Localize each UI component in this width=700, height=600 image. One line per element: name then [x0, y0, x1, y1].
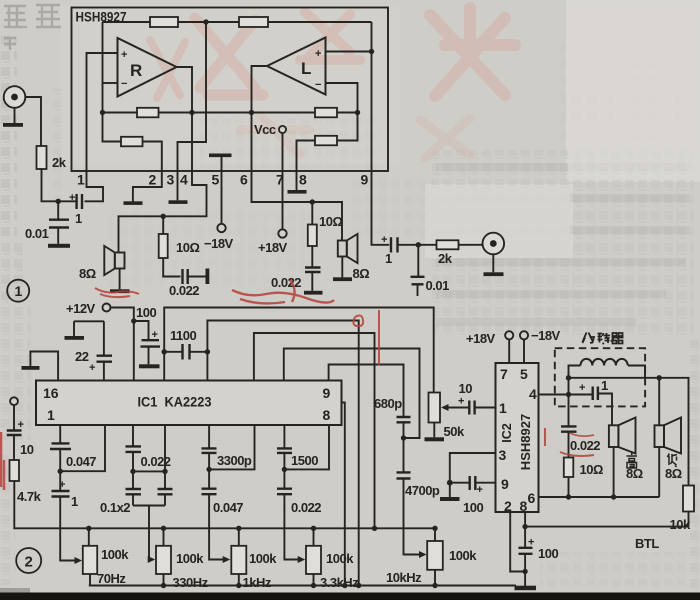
- speaker low 8ohm: [655, 378, 682, 497]
- node high speaker rail: [611, 494, 616, 499]
- wire 0.1x2 join to pot2: [133, 506, 165, 560]
- ground jack right: [484, 272, 504, 276]
- ground 22uF with stem: [65, 321, 104, 340]
- wiper arrow pot2: [148, 556, 156, 563]
- svg-text:−18V: −18V: [204, 236, 234, 251]
- wire jack to 2k left: [25, 97, 41, 146]
- node pin8 BTL: [522, 524, 527, 529]
- wire R lower feedback to pin2: [103, 113, 162, 172]
- label fenpinqi (crossover) glyphs: [583, 333, 624, 345]
- wire 2k to input node: [42, 169, 77, 201]
- svg-text:+: +: [528, 537, 534, 549]
- svg-text:+: +: [381, 234, 387, 246]
- wire Vcc pin7: [282, 133, 284, 229]
- svg-text:+: +: [152, 329, 158, 341]
- svg-text:100: 100: [136, 305, 156, 320]
- wire bus E to 680p: [329, 365, 404, 417]
- ground IC2 output: [515, 586, 537, 591]
- IC block HSH8927 outline: [72, 8, 389, 172]
- svg-text:3.3kHz: 3.3kHz: [320, 575, 359, 590]
- resistor R gain set: [121, 137, 143, 147]
- ground jack left: [3, 123, 23, 127]
- svg-text:−18V: −18V: [531, 328, 561, 343]
- svg-text:7: 7: [276, 172, 284, 188]
- wire sect4 return pin: [284, 425, 329, 469]
- node pin3/9 ground junction: [447, 480, 453, 486]
- capacitor 0.047 second: [202, 469, 228, 559]
- svg-text:0.022: 0.022: [271, 275, 301, 290]
- ground speaker R: [110, 289, 130, 293]
- svg-text:IC2: IC2: [500, 423, 514, 443]
- capacitor 100 pin9: [450, 476, 496, 490]
- wire bus C to top rail: [254, 333, 375, 528]
- wire -18V pin5: [523, 339, 525, 363]
- capacitor 3300p: [202, 425, 217, 469]
- svg-text:4: 4: [529, 386, 537, 402]
- svg-text:3: 3: [167, 172, 175, 188]
- wire pin1 to input cap: [85, 171, 104, 201]
- node R fb left: [100, 110, 105, 115]
- svg-text:6: 6: [528, 490, 536, 506]
- pin number labels 1-9: [77, 172, 369, 188]
- ground pin8: [288, 190, 307, 194]
- terminal Vcc: [279, 126, 286, 133]
- node pot2 bottom: [161, 583, 166, 588]
- svg-text:100k: 100k: [326, 551, 354, 566]
- svg-text:0.022: 0.022: [169, 283, 199, 298]
- svg-text:+: +: [315, 48, 321, 60]
- svg-text:IC1 KA2223: IC1 KA2223: [138, 395, 212, 410]
- wiper arrow pot4: [298, 556, 306, 563]
- wire pin9 to R-ch input network: [372, 171, 390, 245]
- node rail IC1 right: [342, 583, 347, 588]
- resistor 10ohm sub: [564, 458, 574, 478]
- svg-text:BTL: BTL: [635, 536, 659, 551]
- capacitor 1uF sect1: [52, 471, 79, 560]
- svg-text:6: 6: [240, 172, 248, 188]
- svg-text:330Hz: 330Hz: [173, 575, 209, 590]
- svg-text:16: 16: [43, 385, 59, 401]
- wire R +input to pin1: [87, 53, 118, 171]
- ground pin16 with L wire: [22, 352, 59, 381]
- svg-text:+: +: [458, 396, 464, 408]
- capacitor 0.01 right: [411, 245, 425, 296]
- svg-text:10kHz: 10kHz: [386, 570, 422, 585]
- svg-text:+: +: [121, 49, 127, 61]
- svg-text:2k: 2k: [52, 155, 67, 170]
- capacitor 22uF: [97, 321, 113, 380]
- bleed-through text right column: [432, 150, 694, 335]
- capacitor 1100: [164, 344, 207, 360]
- node L +input: [369, 49, 374, 54]
- wire bus B to bottom rail: [207, 321, 358, 586]
- node L fb right: [355, 110, 360, 115]
- capacitor 0.1x2 left: [126, 471, 142, 505]
- potentiometer pot3 100k 1kHz: [231, 526, 246, 586]
- wire pin8 down: [524, 512, 526, 547]
- capacitor 0.022 first: [126, 425, 142, 471]
- wire pin8 ground: [296, 171, 298, 190]
- terminal +12V: [103, 304, 111, 312]
- svg-text:1: 1: [71, 494, 78, 509]
- potentiometer pot4 100k 3.3kHz: [306, 526, 321, 586]
- resistor L feedback top-right: [239, 17, 268, 27]
- node 680p: [401, 435, 406, 440]
- svg-text:2: 2: [25, 554, 33, 571]
- wire cap to 2k: [399, 244, 437, 246]
- node sect4: [282, 467, 287, 472]
- capacitor 100 output: [519, 548, 533, 588]
- capacitor 0.022 sub: [561, 395, 577, 458]
- capacitor input 1uF left: [77, 194, 82, 209]
- RCA jack right: [483, 233, 505, 273]
- svg-text:50k: 50k: [444, 424, 465, 439]
- IC1 block KA2223: [36, 381, 342, 426]
- svg-text:+18V: +18V: [258, 240, 288, 255]
- svg-text:100: 100: [538, 546, 558, 561]
- node 10ohm rail: [566, 494, 571, 499]
- svg-text:L: L: [301, 59, 311, 78]
- terminal input sect2: [10, 397, 18, 405]
- potentiometer pot1 100k 70Hz: [83, 526, 97, 586]
- terminal -18V: [217, 224, 225, 232]
- svg-text:+: +: [579, 382, 585, 394]
- wire 4.7k to top rail: [14, 481, 435, 528]
- capacitor 680p: [397, 417, 411, 438]
- circled number 1: [7, 280, 29, 302]
- svg-text:7: 7: [500, 366, 508, 382]
- wire pin4 to speaker node: [119, 171, 207, 253]
- wire L +input to pin9 line: [326, 51, 372, 53]
- wire L lower feedback to pin8: [297, 113, 358, 172]
- wiper arrow pot5: [419, 551, 427, 558]
- svg-text:100k: 100k: [101, 547, 129, 562]
- wire sect2 return pin: [133, 425, 165, 471]
- circled number 2: [16, 548, 41, 573]
- node 1100 right: [205, 349, 210, 354]
- pin labels IC1: [43, 385, 331, 423]
- svg-text:4: 4: [180, 172, 188, 188]
- black scan edge bottom-left notch: [0, 588, 30, 594]
- capacitor 0.1x2 right: [158, 471, 173, 505]
- svg-text:9: 9: [501, 476, 509, 492]
- wire pin9 input line: [371, 22, 373, 171]
- capacitor 10uF input: [7, 405, 22, 460]
- wire BTL feedback: [525, 526, 688, 528]
- svg-text:0.1x2: 0.1x2: [100, 500, 130, 515]
- black scan edge bottom: [0, 593, 700, 600]
- svg-text:8: 8: [299, 172, 307, 188]
- capacitor 100uF supply: [134, 321, 160, 364]
- node pot4 bottom: [311, 583, 316, 588]
- svg-text:3300p: 3300p: [217, 453, 252, 468]
- potentiometer pot2 100k 330Hz: [156, 526, 171, 586]
- node pin2 junction: [522, 569, 527, 574]
- svg-text:8: 8: [520, 498, 528, 514]
- wire pin5 to -18V: [221, 171, 223, 224]
- dark printed characters top-left corner: [4, 5, 61, 50]
- svg-text:1: 1: [15, 283, 23, 299]
- svg-text:100k: 100k: [449, 548, 477, 563]
- svg-text:100: 100: [463, 500, 483, 515]
- node sect1: [58, 469, 63, 474]
- svg-text:1: 1: [77, 172, 85, 188]
- svg-text:1: 1: [47, 407, 55, 423]
- resistor 2k left: [37, 146, 47, 169]
- wire pin2 ground: [133, 171, 162, 202]
- svg-text:1: 1: [601, 378, 608, 393]
- speaker R 8ohm: [104, 246, 124, 289]
- svg-text:1100: 1100: [170, 328, 196, 343]
- resistor L feedback inner: [315, 108, 337, 118]
- capacitor 0.022 right: [304, 246, 323, 295]
- wire pin6 to speaker L node: [252, 171, 343, 241]
- resistor L gain set: [315, 136, 337, 146]
- wire L -input stub: [326, 83, 358, 113]
- svg-text:1: 1: [385, 251, 392, 266]
- node +12V junction: [131, 318, 136, 323]
- svg-text:2: 2: [149, 172, 157, 188]
- svg-text:4700p: 4700p: [405, 483, 440, 498]
- ground T-bar pin5: [209, 154, 232, 172]
- wire sect1 return pin: [60, 425, 105, 471]
- svg-text:0.022: 0.022: [141, 454, 171, 469]
- wire +12V feed: [111, 308, 134, 381]
- svg-text:−: −: [315, 79, 321, 91]
- capacitor 0.047 first: [50, 425, 71, 471]
- svg-text:0.047: 0.047: [213, 500, 243, 515]
- wire R -input stub: [103, 82, 118, 84]
- svg-text:10Ω: 10Ω: [319, 214, 342, 229]
- resistor R feedback top-left: [150, 17, 178, 27]
- svg-text:Vcc: Vcc: [254, 122, 276, 137]
- wire feedback rail y112: [103, 112, 358, 114]
- svg-text:0.047: 0.047: [66, 454, 96, 469]
- wire top feedback bus: [103, 21, 372, 23]
- node R fb right: [189, 110, 194, 115]
- svg-text:8: 8: [323, 407, 331, 423]
- node L output: [249, 110, 254, 115]
- inductor crossover: [581, 359, 628, 366]
- ground pin3: [440, 483, 460, 501]
- wire IC1 right side to bottom rail: [342, 403, 345, 586]
- wire 10ohm to pin6 rail: [568, 477, 570, 497]
- speaker high 8ohm: [609, 418, 636, 498]
- wiper arrow pot1: [75, 557, 83, 564]
- wire sect3 return pin: [209, 425, 254, 469]
- wire L output to pin6: [252, 66, 268, 171]
- node speaker L junction: [310, 199, 315, 204]
- capacitor 4700p: [397, 438, 421, 555]
- wire bus D to 680p node: [284, 349, 420, 439]
- svg-text:4.7k: 4.7k: [17, 489, 42, 504]
- node rail B: [356, 583, 361, 588]
- svg-text:8Ω: 8Ω: [353, 266, 370, 281]
- resistor 4.7k: [10, 460, 20, 481]
- capacitor 0.01 left: [49, 201, 69, 244]
- red pen marks: [1, 280, 594, 490]
- svg-text:1: 1: [75, 211, 82, 226]
- capacitor 0.022 second: [277, 469, 303, 559]
- capacitor 1500: [277, 425, 292, 469]
- RCA jack left: [4, 86, 26, 123]
- ground 100uF: [139, 364, 160, 368]
- svg-text:8Ω: 8Ω: [626, 466, 643, 481]
- pin labels IC2: [499, 366, 538, 514]
- svg-text:0.01: 0.01: [25, 226, 49, 241]
- wire top bus left descender: [102, 22, 104, 113]
- svg-text:+12V: +12V: [66, 301, 96, 316]
- svg-text:0.01: 0.01: [426, 278, 450, 293]
- wire pin2 down: [510, 512, 525, 572]
- ground 0.01 left: [48, 244, 70, 248]
- svg-text:10: 10: [20, 442, 34, 457]
- svg-text:9: 9: [361, 172, 369, 188]
- capacitor 1uF right input: [391, 237, 398, 252]
- resistor 10k: [683, 486, 694, 512]
- potentiometer 50k: [425, 393, 445, 442]
- wire 2k to jack: [459, 244, 483, 246]
- wire +18V pin7: [508, 339, 510, 363]
- wire pin6 rail: [539, 496, 660, 498]
- svg-text:2: 2: [504, 498, 512, 514]
- wiper arrow pot3: [223, 556, 231, 563]
- terminal -18V IC2: [520, 331, 528, 339]
- svg-text:0.022: 0.022: [570, 438, 600, 453]
- resistor 10ohm right: [308, 202, 317, 246]
- resistor R feedback inner: [137, 108, 159, 118]
- potentiometer pot5 100k 10kHz: [427, 526, 443, 586]
- ground speaker L: [333, 277, 352, 281]
- node sect3: [206, 467, 211, 472]
- svg-text:0.022: 0.022: [291, 500, 321, 515]
- svg-text:100k: 100k: [249, 551, 277, 566]
- svg-text:+: +: [18, 419, 24, 431]
- ground pin3: [169, 171, 188, 204]
- wiper arrow 50k with cap 10: [441, 401, 496, 415]
- node inductor rail: [566, 375, 571, 380]
- node pot3 bottom: [236, 583, 241, 588]
- svg-text:+18V: +18V: [466, 331, 496, 346]
- op-amp R: [118, 38, 177, 97]
- svg-text:100k: 100k: [176, 551, 204, 566]
- ground pin2: [124, 201, 143, 205]
- terminal +18V IC2: [505, 331, 513, 339]
- svg-text:10Ω: 10Ω: [580, 462, 603, 477]
- capacitor 1uF crossover: [569, 387, 613, 426]
- node 1100 left: [162, 349, 167, 354]
- resistor 2k right: [437, 240, 459, 249]
- pink watermark strokes: [150, 8, 515, 98]
- terminal +18V: [278, 229, 286, 237]
- svg-text:R: R: [130, 61, 142, 80]
- node pot5 bottom: [432, 583, 437, 588]
- svg-text:3: 3: [499, 447, 507, 463]
- node right input junction: [416, 242, 421, 247]
- wire R output to pin4: [177, 67, 193, 171]
- label high glyph: [627, 453, 638, 469]
- IC2 block HSH8927: [496, 363, 539, 512]
- node pin4: [566, 392, 571, 397]
- svg-text:8Ω: 8Ω: [79, 266, 96, 281]
- svg-text:8Ω: 8Ω: [665, 466, 682, 481]
- svg-text:10: 10: [459, 381, 473, 396]
- svg-text:1500: 1500: [291, 453, 318, 468]
- svg-text:1: 1: [499, 400, 507, 416]
- op-amp L: [267, 38, 326, 95]
- node speaker R junction: [161, 214, 166, 219]
- bleed-through text left column: [1, 36, 17, 236]
- node top bus junction: [203, 19, 208, 24]
- label low glyph: [667, 454, 677, 468]
- svg-text:HSH8927: HSH8927: [518, 414, 533, 470]
- svg-text:1kHz: 1kHz: [243, 575, 272, 590]
- node sect2 right: [162, 469, 167, 474]
- svg-text:+: +: [477, 484, 483, 496]
- svg-text:2k: 2k: [438, 251, 453, 266]
- wire bus A to 50k: [164, 308, 434, 393]
- wire pin3: [450, 453, 496, 483]
- node low speaker rail top: [657, 375, 662, 380]
- capacitor 0.022 left: [163, 258, 209, 284]
- dashed box crossover: [555, 348, 645, 406]
- wire bottom rail: [89, 585, 516, 587]
- svg-text:5: 5: [212, 172, 220, 188]
- node rail C: [372, 526, 377, 531]
- wire pin4: [539, 394, 569, 396]
- speaker L 8ohm: [338, 234, 358, 277]
- svg-text:9: 9: [323, 385, 331, 401]
- svg-text:70Hz: 70Hz: [97, 571, 126, 586]
- wire pin3 descender from top bus: [178, 22, 207, 171]
- svg-text:−: −: [121, 78, 127, 90]
- svg-text:10Ω: 10Ω: [176, 240, 199, 255]
- svg-text:+: +: [89, 362, 95, 374]
- resistor 10ohm left: [159, 216, 168, 258]
- svg-text:22: 22: [75, 349, 89, 364]
- svg-text:+: +: [59, 479, 65, 491]
- svg-text:680p: 680p: [374, 396, 402, 411]
- node left input junction: [56, 199, 61, 204]
- wire 10k to BTL: [688, 512, 690, 527]
- wire crossover rail: [569, 366, 689, 486]
- svg-text:5: 5: [520, 366, 528, 382]
- node sect2 left: [130, 469, 135, 474]
